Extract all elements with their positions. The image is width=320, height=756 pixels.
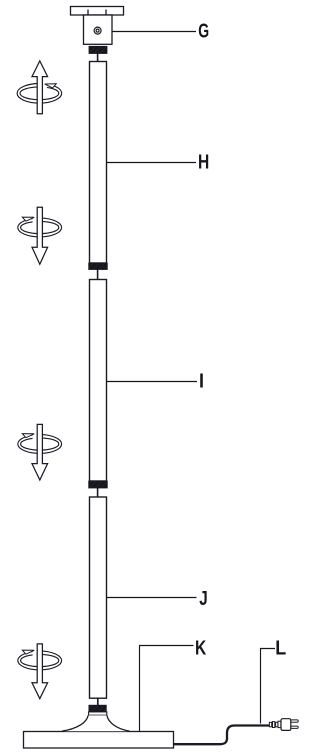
screw head [94,27,101,34]
bracket block [84,15,113,44]
svg-text:G: G [198,19,209,42]
plug prong upper [291,720,298,722]
pole section I [90,280,107,482]
leader line J [107,597,197,599]
leader line H [107,162,196,164]
svg-text:K: K [195,637,206,659]
leader line G [112,31,196,33]
plug strain-relief ribs [269,722,271,727]
base plate K [24,732,174,749]
base flare [62,715,130,731]
bracket stem [97,54,99,62]
plug prong lower [291,726,298,728]
pole section J [90,497,107,698]
joint stem 2 [97,488,99,497]
svg-text:J: J [199,587,207,610]
svg-text:L: L [275,638,286,660]
joint band 2 [89,481,108,488]
bracket collar band [89,46,107,53]
leader line L [261,649,276,724]
plug neck [278,721,281,727]
svg-text:I: I [199,371,204,393]
bottom stem [97,698,99,705]
rotation symbol 2 (turn, arrow down) [18,207,62,264]
rotation symbol 3 (turn, arrow down) [18,424,62,480]
flare collar [89,712,107,715]
mounting bracket plate G [71,7,124,16]
plug L [269,719,298,731]
leader line K [140,646,194,732]
power cord [174,726,270,745]
joint stem 1 [97,270,99,280]
plug body [281,719,291,731]
leader line I [107,381,197,383]
bottom band [89,705,106,712]
rotation symbol 1 (turn, arrow up) [17,61,62,114]
svg-text:H: H [198,151,209,173]
rotation symbol 4 (turn, arrow down) [18,644,62,699]
joint band 1 [89,263,108,270]
pole section H [90,62,107,264]
